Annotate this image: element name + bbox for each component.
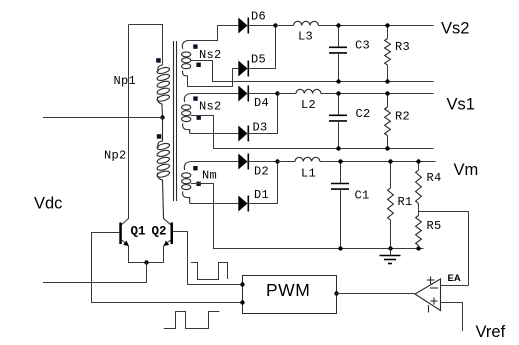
- node rectifier Vs2: [273, 23, 277, 27]
- wire node to L2: [278, 93, 297, 95]
- node C1 top: [338, 159, 342, 163]
- node C3 top: [336, 23, 340, 27]
- node C2 top: [336, 91, 340, 95]
- svg-text:Vm: Vm: [454, 161, 479, 179]
- node rectifier Vs1: [275, 91, 279, 95]
- wire Nm center tap down to ground rail: [191, 184, 424, 249]
- svg-text:R4: R4: [427, 171, 442, 185]
- resistor R2: [385, 94, 391, 149]
- svg-text:R5: R5: [427, 219, 442, 233]
- svg-text:Vs2: Vs2: [441, 20, 469, 38]
- node R3 top: [385, 23, 389, 27]
- svg-text:D4: D4: [254, 96, 269, 110]
- wire Q1 emitter to common node: [129, 246, 147, 263]
- wire EA output to PWM: [337, 293, 416, 295]
- node PWM drive B: [240, 300, 244, 304]
- wire Nm bottom terminal to D1: [190, 203, 239, 205]
- svg-text:R3: R3: [395, 40, 410, 54]
- node emitter junction: [144, 260, 148, 264]
- wire Vdc minus return: [43, 263, 147, 283]
- wire EA non-inverting input to Vref: [441, 303, 463, 332]
- winding Np2: [156, 118, 170, 225]
- node C1 bottom: [338, 246, 342, 250]
- wire L1 to Vm output: [320, 161, 436, 163]
- wire L3 to Vs2 output: [318, 25, 433, 27]
- ground: [380, 249, 401, 264]
- wire L2 to Vs1 output: [321, 93, 434, 95]
- svg-text:D6: D6: [251, 10, 266, 24]
- node R1 bottom: [388, 246, 392, 250]
- wire D1 cathode up to node: [248, 162, 277, 204]
- diode D4: [238, 86, 248, 102]
- inductor L2: [296, 89, 321, 93]
- node R5 bottom: [416, 246, 420, 250]
- node R4 top: [416, 159, 420, 163]
- wire EA inverting input: [441, 285, 469, 287]
- diode D6: [238, 18, 248, 34]
- capacitor C1: [331, 162, 349, 249]
- svg-text:D3: D3: [253, 121, 268, 135]
- op-amp EA: [415, 277, 441, 313]
- node R2 bottom: [385, 146, 389, 150]
- diode D5: [238, 61, 248, 77]
- wire Q1 collector rail: [122, 25, 129, 225]
- svg-text:C3: C3: [355, 39, 370, 53]
- winding Nm: [182, 162, 191, 204]
- diode D3: [238, 126, 248, 142]
- diode D2: [238, 154, 248, 170]
- winding Ns2 (top, Vs2) polarity squares: [193, 44, 197, 48]
- wire Ns2 top terminal to D6: [189, 26, 239, 41]
- inductor L1: [295, 157, 320, 161]
- node C2 bottom: [336, 146, 340, 150]
- winding Ns2 (middle, Vs1): [182, 94, 191, 134]
- svg-text:C2: C2: [356, 107, 371, 121]
- winding Np1 polarity square: [156, 58, 161, 63]
- winding Np2 polarity square: [157, 134, 162, 139]
- PWM block: [243, 276, 337, 314]
- svg-text:C1: C1: [355, 189, 370, 203]
- wire D6 cathode to node: [248, 25, 275, 27]
- node R1 top: [388, 159, 392, 163]
- wire Vdc plus to center tap: [43, 117, 163, 119]
- wire Ns2 bottom terminal to D5: [188, 69, 239, 87]
- svg-text:L3: L3: [298, 30, 313, 44]
- transistor Q2: [164, 223, 174, 247]
- node center tap primary: [160, 115, 164, 119]
- svg-text:Vref: Vref: [476, 323, 506, 341]
- resistor R5: [416, 212, 422, 249]
- winding Ns2 (middle, Vs1) polarity squares: [193, 96, 197, 100]
- winding Nm polarity squares: [193, 166, 197, 170]
- resistor R3: [385, 26, 391, 82]
- svg-text:R1: R1: [398, 195, 413, 209]
- wire Q2 base: [173, 232, 243, 285]
- svg-text:Q1: Q1: [131, 225, 146, 239]
- svg-text:Vs1: Vs1: [447, 96, 475, 114]
- svg-text:EA: EA: [448, 273, 461, 284]
- inductor L3: [294, 21, 319, 25]
- resistor R4: [416, 162, 422, 212]
- wire node to L3: [276, 25, 294, 27]
- node PWM drive A: [240, 282, 244, 286]
- svg-text:Nm: Nm: [202, 169, 217, 183]
- wire Nm top terminal to D2: [191, 161, 239, 163]
- svg-text:Q2: Q2: [152, 225, 167, 239]
- node R3 bottom: [385, 79, 389, 83]
- svg-text:Vdc: Vdc: [34, 195, 62, 213]
- node PWM input: [334, 291, 338, 295]
- wire Ns2 middle center tap to return rail: [191, 116, 434, 149]
- wire feedback tap to EA inverting input: [419, 212, 469, 286]
- transformer core: [174, 41, 177, 201]
- capacitor C2: [329, 94, 347, 149]
- waveform drive Q2: [191, 263, 228, 280]
- svg-text:D2: D2: [254, 165, 269, 179]
- wire Ns2 top terminal to D4: [191, 93, 239, 95]
- winding Ns2 (top, Vs2): [182, 40, 191, 76]
- svg-text:Np1: Np1: [114, 74, 137, 88]
- diode D1: [238, 196, 248, 212]
- svg-text:R2: R2: [395, 110, 410, 124]
- svg-text:D5: D5: [251, 53, 266, 67]
- resistor R1: [388, 162, 394, 249]
- svg-text:Ns2: Ns2: [199, 48, 222, 62]
- wire D2 cathode to node: [248, 161, 277, 163]
- svg-text:D1: D1: [254, 188, 269, 202]
- node R2 top: [385, 91, 389, 95]
- wire Q2 emitter to common node: [147, 246, 164, 263]
- winding Np1: [156, 65, 170, 118]
- node C3 bottom: [336, 79, 340, 83]
- svg-text:Np2: Np2: [104, 149, 127, 163]
- wire Q1 base: [92, 233, 243, 303]
- wire Ns2 bottom terminal to D3: [190, 133, 239, 135]
- wire D5 cathode up to node: [248, 26, 275, 69]
- wire primary top (Q1 collector to Np1 top): [129, 25, 163, 66]
- svg-text:Ns2: Ns2: [199, 100, 222, 114]
- wire D4 cathode to node: [248, 93, 277, 95]
- capacitor C3: [329, 26, 347, 82]
- svg-text:PWM: PWM: [266, 280, 310, 300]
- svg-text:L2: L2: [301, 98, 316, 112]
- wire Ns2 center tap to return rail: [191, 61, 434, 82]
- svg-text:L1: L1: [301, 167, 316, 181]
- wire D3 cathode up to node: [248, 94, 277, 134]
- node rectifier Vm: [275, 159, 279, 163]
- waveform drive Q1: [164, 312, 220, 329]
- transistor Q1: [119, 223, 129, 247]
- wire node to L1: [278, 161, 296, 163]
